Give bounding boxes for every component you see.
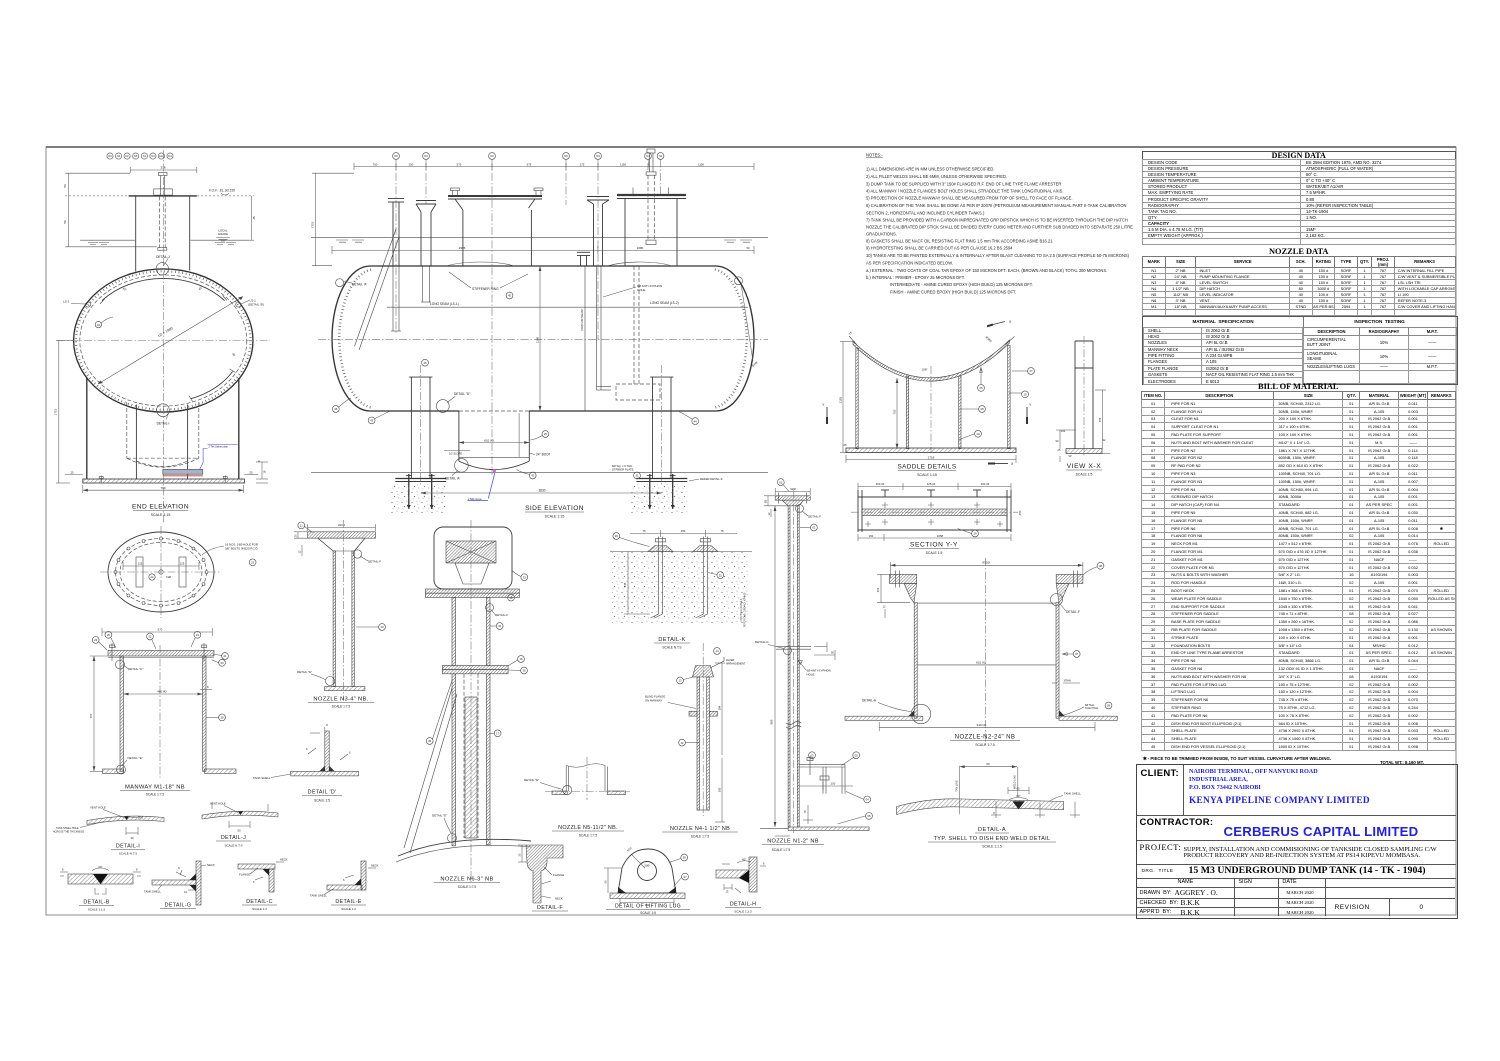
- right saddle base plate: [636, 478, 687, 480]
- nozzle N5 drawing: [524, 757, 630, 838]
- balloon 19: [219, 714, 226, 721]
- N4/N1 frame: [617, 195, 686, 266]
- neck walls: [135, 196, 137, 271]
- ground lines: [80, 239, 135, 241]
- project row: [1137, 840, 1456, 865]
- saddle centerline: [930, 366, 932, 453]
- svg-text:DETAIL 'A': DETAIL 'A': [445, 477, 460, 481]
- svg-text:DETAIL-J: DETAIL-J: [221, 835, 246, 841]
- ground grade line: [311, 236, 768, 238]
- shell plate bottom left: [845, 716, 923, 720]
- right small dim: [814, 642, 835, 660]
- svg-text:40: 40: [508, 294, 512, 298]
- svg-text:NECK: NECK: [371, 864, 379, 868]
- lifting handle slots: [136, 557, 143, 587]
- svg-text:10: 10: [380, 625, 384, 629]
- svg-text:275: 275: [580, 163, 585, 167]
- nozzle N3 stub: [416, 201, 436, 267]
- right flange: [1056, 574, 1083, 583]
- internal dip hatched portion: [465, 697, 477, 838]
- magenta point and blue callout: [493, 469, 496, 472]
- svg-text:832Ø: 832Ø: [982, 561, 990, 565]
- svg-text:125: 125: [180, 562, 185, 566]
- svg-text:44: 44: [694, 419, 698, 423]
- balloon 43: [368, 417, 375, 424]
- dims: [960, 765, 1080, 818]
- detail C callout: [116, 660, 125, 669]
- svg-text:460 I/D: 460 I/D: [157, 690, 166, 694]
- svg-text:REFER DETAIL-K: REFER DETAIL-K: [700, 477, 723, 481]
- svg-text:SCALE 1:7.5: SCALE 1:7.5: [332, 705, 351, 709]
- svg-text:07: 07: [1075, 652, 1079, 656]
- svg-text:DETAIL "D": DETAIL "D": [454, 392, 470, 396]
- dim 1160 inside tank: [539, 266, 542, 411]
- svg-text:37: 37: [683, 875, 687, 879]
- svg-text:60°: 60°: [1016, 794, 1020, 798]
- left foundation concrete: [390, 484, 446, 513]
- corner weld fills: [908, 710, 914, 716]
- detail J drawing: [202, 802, 278, 848]
- svg-text:NOZZLE N3-4" NB.: NOZZLE N3-4" NB.: [313, 697, 368, 703]
- svg-text:MANWAY M1-18" NB: MANWAY M1-18" NB: [125, 785, 185, 791]
- svg-text:6: 6: [257, 460, 261, 462]
- balloon 26b: [978, 385, 985, 392]
- svg-text:SCALE:N.T.S: SCALE:N.T.S: [224, 844, 242, 848]
- svg-text:DETAIL-F: DETAIL-F: [537, 905, 563, 911]
- svg-text:10) TANKS ARE TO BE PAINTED EX: 10) TANKS ARE TO BE PAINTED EXTERNALLY &…: [866, 253, 1130, 258]
- svg-text:25: 25: [518, 853, 522, 856]
- svg-text:Y: Y: [1029, 403, 1032, 407]
- svg-text:9) HYDROTESTING SHALL BE CARRI: 9) HYDROTESTING SHALL BE CARRIED OUT AS …: [866, 245, 1013, 250]
- svg-text:450: 450: [681, 529, 686, 533]
- svg-text:3830: 3830: [538, 489, 545, 493]
- svg-text:DETAIL-I: DETAIL-I: [116, 844, 140, 850]
- svg-text:N2: N2: [490, 154, 494, 158]
- svg-text:25: 25: [843, 443, 847, 447]
- tank shell pad: [325, 687, 365, 691]
- svg-text:13: 13: [299, 550, 302, 553]
- right rib: [1008, 345, 1010, 449]
- detail E drawing: [310, 861, 379, 911]
- svg-text:1) ALL DIMENSIONS ARE IN MM UN: 1) ALL DIMENSIONS ARE IN MM UNLESS OTHER…: [866, 167, 995, 172]
- manway cover plate plan view: [100, 526, 259, 618]
- dip hatch cap: [693, 666, 714, 678]
- svg-text:SCALE 1:15: SCALE 1:15: [151, 513, 171, 517]
- svg-text:27: 27: [1029, 369, 1033, 373]
- svg-text:8: 8: [326, 723, 328, 727]
- bill of material table: [1141, 383, 1456, 751]
- svg-text:TANK SHELL: TANK SHELL: [144, 890, 161, 894]
- svg-text:06: 06: [855, 753, 859, 757]
- svg-text:LONG SEAM (LS-1): LONG SEAM (LS-1): [430, 302, 459, 306]
- svg-text:DETAIL-F: DETAIL-F: [1066, 610, 1080, 614]
- circum seam: [584, 266, 586, 411]
- right dim -45: [197, 196, 254, 240]
- svg-text:DETAIL-I: DETAIL-I: [157, 422, 170, 426]
- vent hood hatched: [446, 541, 496, 563]
- svg-text:6: 6: [306, 747, 308, 751]
- tank shell outline: [332, 266, 754, 411]
- nozzle balloons row: [393, 153, 664, 160]
- top dim 832: [890, 562, 1083, 578]
- svg-text:24: 24: [151, 575, 154, 579]
- svg-text:NECK: NECK: [555, 897, 563, 901]
- svg-text:X: X: [1009, 320, 1012, 324]
- left dim 535: [624, 552, 650, 615]
- apprd by: [1137, 907, 1236, 916]
- flange: [775, 496, 810, 500]
- balloon 10: [379, 624, 386, 631]
- svg-text:16: 16: [263, 470, 267, 473]
- svg-text:15: 15: [726, 891, 729, 894]
- detail-A weld drawing: [897, 762, 1082, 849]
- svg-text:45°: 45°: [742, 858, 746, 862]
- svg-text:N5: N5: [564, 154, 568, 158]
- svg-text:29: 29: [973, 532, 977, 536]
- tank shell: [788, 827, 869, 830]
- svg-text:01: 01: [812, 526, 816, 530]
- top dim line 278: [130, 167, 197, 173]
- detail B drawing: [60, 865, 141, 912]
- balloon 44: [692, 418, 699, 425]
- svg-text:2 500 micron: 2 500 micron: [468, 498, 482, 501]
- flange pair 1: [425, 589, 519, 593]
- svg-text:50: 50: [604, 880, 608, 883]
- svg-text:TANK SHELL: TANK SHELL: [1064, 792, 1081, 796]
- detail of lifting lug: [604, 846, 691, 915]
- svg-text:910 I/D: 910 I/D: [977, 723, 988, 727]
- detail E callout bottom: [117, 765, 126, 774]
- svg-text:1718: 1718: [928, 456, 935, 460]
- svg-text:SCALE 1:2.5: SCALE 1:2.5: [734, 910, 752, 914]
- balloon 45: [332, 406, 339, 413]
- left dim 888: [774, 506, 777, 827]
- svg-text:CIRCUM SEAM: CIRCUM SEAM: [580, 309, 584, 331]
- svg-text:DETAIL-A: DETAIL-A: [978, 827, 1006, 833]
- svg-text:SCALE 1:5: SCALE 1:5: [926, 551, 943, 555]
- svg-text:76: 76: [803, 810, 807, 813]
- svg-text:5/8" BOLTS 0N520 P.C.D.: 5/8" BOLTS 0N520 P.C.D.: [225, 547, 259, 551]
- svg-text:ARRANGEMENT: ARRANGEMENT: [726, 663, 746, 666]
- svg-text:2 Thk Striker plate: 2 Thk Striker plate: [209, 446, 229, 449]
- cap rect above flange plate: [154, 189, 173, 195]
- svg-text:610 I/D: 610 I/D: [976, 660, 987, 664]
- svg-text:SCALE 1:1.5: SCALE 1:1.5: [88, 908, 106, 912]
- svg-text:765: 765: [893, 409, 897, 414]
- svg-text:220.5: 220.5: [338, 523, 345, 527]
- svg-text:24: 24: [196, 633, 200, 637]
- dims: [123, 562, 199, 570]
- middle rib 2: [959, 376, 961, 449]
- svg-text:REFER CIVIL DRG NO. KPC-05: REFER CIVIL DRG NO. KPC-05: [744, 592, 747, 627]
- svg-text:25: 25: [107, 633, 111, 637]
- detail I drawing: [53, 806, 164, 856]
- pit floor line: [311, 471, 768, 473]
- svg-text:30: 30: [131, 836, 134, 840]
- wear plate band (concave arc): [853, 340, 1010, 381]
- svg-text:N1: N1: [143, 155, 147, 158]
- inner horizontals: [917, 602, 1056, 604]
- svg-text:NECK: NECK: [207, 863, 215, 867]
- svg-text:a.) EXTERNAL : TWO COATS OF CO: a.) EXTERNAL : TWO COATS OF COAL TAR EPO…: [866, 268, 1107, 273]
- svg-text:F.O.F. EL.93.150: F.O.F. EL.93.150: [209, 189, 235, 193]
- svg-text:FLANGE: FLANGE: [553, 873, 564, 877]
- svg-text:75: 75: [720, 529, 724, 533]
- left rib: [856, 348, 858, 449]
- shell rim tick band: [76, 271, 251, 409]
- svg-text:4) ALL MANWAY / NOZZLE FLANGES: 4) ALL MANWAY / NOZZLE FLANGES BOLT HOLE…: [866, 188, 1063, 193]
- base plate with hatch: [83, 479, 245, 483]
- flame arrester body: [434, 527, 512, 589]
- svg-text:1183: 1183: [839, 396, 843, 403]
- balloon 08: [1097, 562, 1104, 569]
- nozzle N3-4 drawing: [294, 520, 385, 709]
- revision cells: [1325, 898, 1391, 917]
- svg-text:6) CALIBRATION OF THE TANK SHA: 6) CALIBRATION OF THE TANK SHALL BE DONE…: [866, 203, 1127, 208]
- contractor row: [1137, 815, 1456, 840]
- svg-text:DETAIL OF LIFTING LUG: DETAIL OF LIFTING LUG: [615, 904, 681, 910]
- svg-text:SCALE 1:5: SCALE 1:5: [640, 911, 656, 915]
- svg-text:STIFFENER RING: STIFFENER RING: [472, 287, 499, 291]
- left dims: [294, 532, 318, 556]
- end elevation drawing: [54, 150, 271, 523]
- svg-text:NOZZLE-N2-24" NB: NOZZLE-N2-24" NB: [955, 735, 1016, 741]
- bolts on cover: [110, 643, 207, 661]
- svg-text:R50: R50: [626, 846, 633, 853]
- svg-text:AS PER SPECIFICATION INDICATED: AS PER SPECIFICATION INDICATED BELOW.: [866, 260, 953, 265]
- detail G drawing: [144, 861, 215, 909]
- svg-text:45°: 45°: [122, 286, 128, 292]
- pipe walls: [788, 506, 799, 827]
- weld node left end: [336, 279, 344, 287]
- svg-text:DETAIL-C: DETAIL-C: [246, 899, 273, 905]
- svg-text:425.33: 425.33: [927, 482, 936, 486]
- dim 25 left/right: [65, 474, 258, 476]
- svg-text:570: 570: [158, 628, 163, 632]
- svg-text:24" BOOT: 24" BOOT: [536, 453, 551, 457]
- svg-text:31: 31: [635, 474, 639, 478]
- svg-text:22: 22: [148, 635, 152, 639]
- svg-text:75: 75: [642, 529, 646, 533]
- bottom dims: [775, 782, 853, 836]
- svg-text:6: 6: [349, 751, 351, 755]
- svg-text:SCALE 1:2: SCALE 1:2: [341, 907, 356, 911]
- svg-text:35: 35: [522, 669, 526, 673]
- svg-text:30: 30: [231, 352, 236, 357]
- svg-text:GRADUATIONS.: GRADUATIONS.: [866, 231, 897, 236]
- svg-text:SADDLE DETAILS: SADDLE DETAILS: [897, 464, 956, 471]
- svg-text:DETAIL-G: DETAIL-G: [165, 903, 192, 909]
- svg-text:N6: N6: [394, 154, 398, 158]
- svg-text:755: 755: [1098, 417, 1102, 422]
- svg-text:1/2 SLOPE: 1/2 SLOPE: [449, 452, 462, 456]
- svg-text:250: 250: [1018, 510, 1022, 515]
- svg-text:DETAIL-F: DETAIL-F: [495, 613, 508, 617]
- 460 ID dim: [124, 693, 203, 696]
- detail F callout: [353, 550, 361, 558]
- svg-text:SCALE 1:7.5: SCALE 1:7.5: [975, 743, 995, 747]
- svg-text:2) ALL FILLET WELDS SHALL BE 6: 2) ALL FILLET WELDS SHALL BE 6MM, UNLESS…: [866, 174, 1007, 179]
- svg-text:TYP. SHELL TO DISH END WELD DE: TYP. SHELL TO DISH END WELD DETAIL: [934, 836, 1051, 842]
- svg-text:08: 08: [1099, 564, 1103, 568]
- svg-text:SCALE 1:5: SCALE 1:5: [1076, 473, 1093, 477]
- svg-text:END ELEVATION: END ELEVATION: [132, 504, 189, 511]
- svg-text:R950: R950: [985, 335, 993, 343]
- svg-text:610 I/D: 610 I/D: [484, 438, 495, 442]
- balloon 09: [1105, 702, 1112, 709]
- client row: [1137, 765, 1456, 816]
- svg-text:ACROSS THE THICKNESS: ACROSS THE THICKNESS: [53, 831, 84, 834]
- top dim 92: [775, 488, 810, 495]
- svg-text:45: 45: [252, 216, 256, 220]
- stiffener ring bumps on top: [446, 262, 672, 266]
- svg-text:8: 8: [62, 868, 64, 872]
- middle rib 1: [906, 376, 908, 449]
- svg-text:SCALE-N.T.S: SCALE-N.T.S: [119, 852, 137, 856]
- svg-text:20: 20: [220, 661, 224, 665]
- top dimension chain: [354, 163, 754, 170]
- right foundation concrete: [631, 484, 687, 513]
- svg-text:N4: N4: [151, 155, 155, 158]
- boot dashed outline: [127, 402, 199, 467]
- detail F callout: [796, 505, 804, 513]
- detail-F callout: [1051, 594, 1063, 606]
- striker plate blue callout: [200, 445, 238, 470]
- svg-text:02: 02: [779, 480, 783, 484]
- svg-text:DETAIL-B: DETAIL-B: [83, 900, 109, 906]
- notes text block: [866, 153, 1133, 295]
- 8THK label: [1052, 682, 1080, 684]
- svg-text:(DETAIL 'B'): (DETAIL 'B'): [248, 303, 264, 307]
- view X-X drawing: [1056, 336, 1110, 477]
- centerlines: [162, 150, 164, 523]
- svg-text:25: 25: [249, 471, 253, 475]
- tank centerline: [318, 338, 768, 340]
- drg title row: [1137, 864, 1456, 879]
- svg-text:DETAIL-H: DETAIL-H: [862, 699, 877, 703]
- internal pipe below M1: [597, 266, 612, 390]
- svg-text:1150: 1150: [620, 163, 626, 167]
- asterisk note and total weight: [1143, 756, 1456, 762]
- nozzle N2 pump mounting: [448, 196, 542, 266]
- svg-text:NOZZLE N5-11/2" NB.: NOZZLE N5-11/2" NB.: [558, 825, 618, 831]
- svg-text:DETAIL "E": DETAIL "E": [297, 670, 312, 674]
- svg-text:108°: 108°: [921, 368, 928, 372]
- svg-text:125: 125: [138, 562, 143, 566]
- svg-text:NOZZLE N6-3" NB: NOZZLE N6-3" NB: [440, 877, 493, 883]
- svg-text:b.) INTERNAL : PRIMER - EPOXY: b.) INTERNAL : PRIMER - EPOXY 25 MICRONS…: [866, 275, 965, 280]
- cover plate: [108, 651, 214, 657]
- pipe break marks: [786, 722, 801, 729]
- svg-text:05: 05: [867, 814, 871, 818]
- svg-text:45: 45: [334, 407, 338, 411]
- svg-text:92: 92: [1103, 438, 1106, 442]
- nozzle N6-3 drawing with flame arrester: [396, 520, 531, 889]
- svg-text:12: 12: [767, 512, 771, 515]
- bottom dim 790: [83, 485, 244, 493]
- material specification + inspection testing tables: [1142, 316, 1458, 385]
- left dim 1723: [312, 173, 354, 266]
- balloon 27: [1028, 368, 1035, 375]
- svg-text:43: 43: [97, 323, 101, 327]
- svg-text:SIDE ELEVATION: SIDE ELEVATION: [525, 505, 584, 512]
- left dims: [764, 496, 788, 517]
- svg-text:1680: 1680: [637, 246, 644, 250]
- balloons 03 06 04 05: [809, 752, 816, 759]
- nozzle N1-2in drawing: [755, 479, 872, 852]
- svg-text:250: 250: [409, 163, 414, 167]
- dim 3830: [421, 492, 662, 495]
- svg-text:43: 43: [370, 419, 374, 423]
- svg-text:NECK: NECK: [280, 858, 288, 862]
- balloon 28: [979, 406, 986, 413]
- svg-text:1150: 1150: [698, 163, 704, 167]
- svg-text:25: 25: [70, 471, 74, 475]
- pipe: [697, 677, 700, 810]
- flange pair 2: [442, 665, 508, 669]
- pipe walls: [333, 551, 335, 687]
- wear plate arc lower right: [191, 372, 233, 399]
- long pipe: [452, 674, 456, 846]
- svg-text:DETAIL-J: DETAIL-J: [156, 255, 170, 259]
- svg-text:DETAIL-E: DETAIL-E: [335, 899, 361, 905]
- base plate: [846, 448, 1016, 453]
- flange: [308, 532, 376, 538]
- svg-text:M1: M1: [596, 154, 600, 158]
- svg-text:N3: N3: [424, 154, 428, 158]
- svg-text:SCALE 1:5: SCALE 1:5: [314, 799, 330, 803]
- svg-text:09: 09: [1107, 704, 1111, 708]
- section cut X marks: [993, 322, 1008, 464]
- svg-text:42: 42: [531, 474, 535, 478]
- inner shell dashed: [80, 275, 247, 406]
- checked by: [1137, 898, 1236, 908]
- left flange: [889, 574, 916, 583]
- saddle legs: [86, 378, 88, 479]
- svg-text:FINISH - AMINE CURED EPOXY (HI: FINISH - AMINE CURED EPOXY (HIGH BUILD) …: [890, 290, 1016, 295]
- left saddle wear plate strip: [409, 377, 432, 478]
- svg-text:33: 33: [523, 575, 527, 579]
- svg-text:150: 150: [869, 534, 874, 538]
- detail F flange section: [518, 845, 569, 911]
- detail-J circle on top of shell: [156, 263, 168, 275]
- balloon 02: [777, 479, 784, 486]
- svg-text:8THK: 8THK: [1064, 679, 1071, 683]
- pipe between flanges: [452, 597, 456, 665]
- svg-text:1160: 1160: [536, 336, 540, 343]
- svg-text:11: 11: [300, 524, 303, 528]
- svg-text:32: 32: [719, 573, 723, 577]
- svg-text:SCALE 1:2: SCALE 1:2: [252, 907, 267, 911]
- nozzle balloons row: [107, 153, 173, 159]
- right saddle wear plate strip: [650, 377, 673, 478]
- svg-text:N2: N2: [125, 155, 129, 158]
- right dims: [715, 663, 725, 822]
- svg-text:17: 17: [496, 732, 500, 736]
- svg-text:36: 36: [428, 739, 432, 743]
- svg-text:N3: N3: [117, 155, 121, 158]
- svg-text:535: 535: [623, 582, 627, 587]
- dim 2995 / 1680 over tank: [332, 246, 754, 254]
- svg-text:10: 10: [1023, 393, 1027, 397]
- svg-text:X: X: [1011, 462, 1014, 466]
- svg-text:28: 28: [980, 407, 984, 411]
- svg-text:DETAIL-F: DETAIL-F: [808, 515, 821, 519]
- weld: [1012, 801, 1024, 809]
- border frame: [46, 147, 1456, 915]
- LS-1 node (DETAIL B): [236, 302, 241, 307]
- svg-text:SCALE 1:7.5: SCALE 1:7.5: [691, 835, 710, 839]
